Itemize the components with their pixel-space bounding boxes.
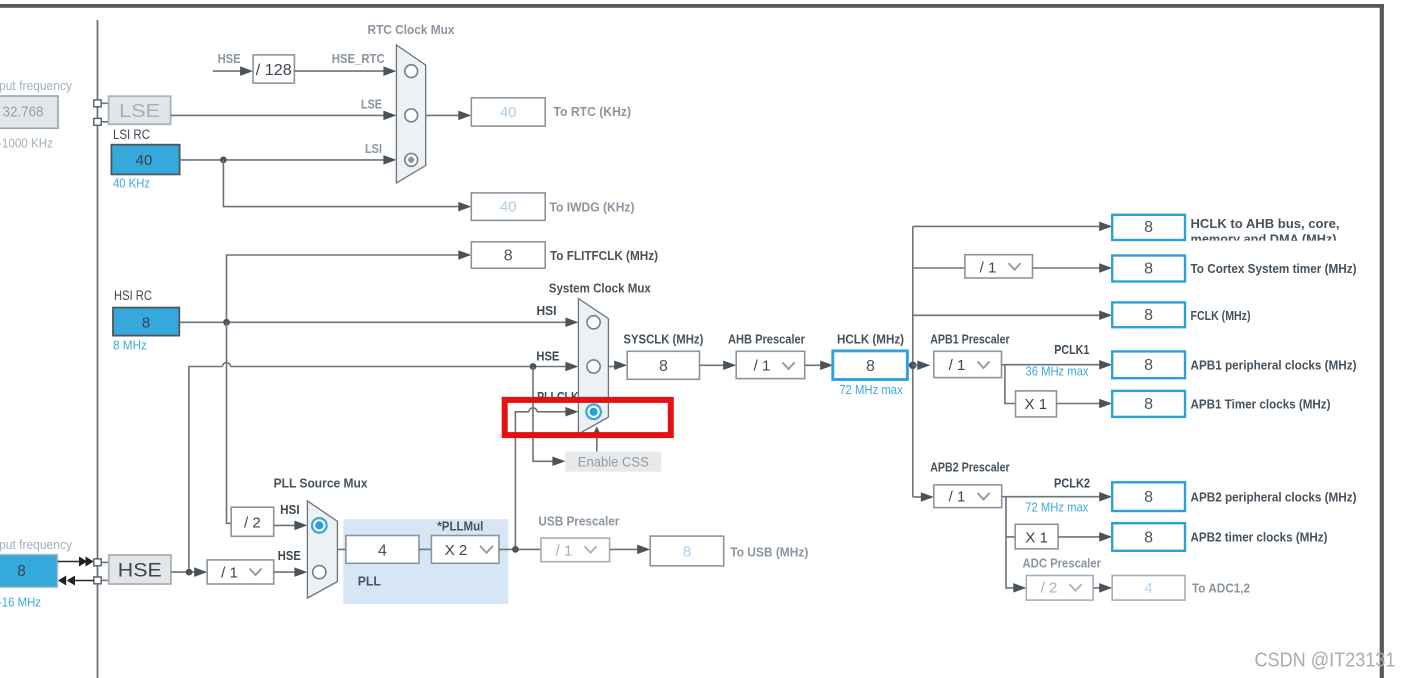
wire pin to HSE box lower <box>101 579 109 581</box>
System Clock Mux body <box>578 299 608 435</box>
wire hop HSE over HSI-div2 line <box>223 363 231 367</box>
junction node CSS tap <box>530 363 537 370</box>
To Cortex output box <box>1112 256 1185 282</box>
arrowhead into APB2 prescaler <box>921 492 934 502</box>
LSE input frequency box 32.768 <box>0 96 58 128</box>
svg-text:X 1: X 1 <box>1025 396 1048 413</box>
Cortex /1 dropdown <box>965 255 1033 278</box>
To ADC output box (disabled) <box>1112 576 1185 601</box>
HCLK box (blue border) <box>833 351 908 380</box>
AHB prescaler dropdown <box>736 351 805 378</box>
APB1 peripheral clocks box <box>1112 351 1185 378</box>
HSE oscillator block <box>109 555 171 584</box>
wire pin to LSE box lower <box>101 121 108 123</box>
svg-text:APB1 Timer clocks (MHz): APB1 Timer clocks (MHz) <box>1191 398 1331 412</box>
wire PLLMul to USB prescaler <box>499 548 541 550</box>
FCLK output box <box>1112 302 1185 327</box>
svg-text:HSE_RTC: HSE_RTC <box>332 52 385 66</box>
svg-text:APB1 Prescaler: APB1 Prescaler <box>930 333 1010 347</box>
PLL block background panel <box>343 519 508 604</box>
pin square HSE lower <box>94 577 101 584</box>
svg-text:X 1: X 1 <box>1025 529 1048 546</box>
junction node HSE out <box>186 569 193 576</box>
junction node PLLCLK <box>512 546 519 553</box>
wire PLL mux to PLLM box <box>337 548 346 550</box>
wire USB prescaler to To USB box <box>610 548 639 550</box>
svg-text:/ 2: / 2 <box>1041 580 1058 597</box>
svg-text:HSE: HSE <box>218 52 241 66</box>
wire HSE riser to system mux <box>189 367 223 573</box>
svg-text:APB2 timer clocks (MHz): APB2 timer clocks (MHz) <box>1191 531 1328 545</box>
arrowhead into PLL mux HSI <box>294 521 307 531</box>
left bus rail (vertical) <box>97 20 99 678</box>
svg-text:CSDN @IT23131: CSDN @IT23131 <box>1255 648 1396 671</box>
svg-text:8: 8 <box>1144 219 1153 236</box>
svg-text:/ 1: / 1 <box>949 489 966 506</box>
PLL Source Mux body <box>307 501 337 598</box>
wire HSE to /1 PreDiv <box>171 571 195 573</box>
arrowhead into FCLK box <box>1099 311 1112 321</box>
arrowhead into HCLK <box>820 361 833 371</box>
wire X1 to APB1 timer output <box>1057 403 1101 405</box>
wire /1 to PLL mux <box>274 571 296 573</box>
svg-text:40: 40 <box>136 152 153 169</box>
wire Enable CSS up-arrow to mux <box>596 436 598 452</box>
double arrowhead left (HSE feedback) <box>58 576 66 586</box>
arrowhead into ADC prescaler <box>1013 583 1026 593</box>
svg-text:AHB Prescaler: AHB Prescaler <box>728 333 805 347</box>
svg-text:HSI: HSI <box>280 502 300 517</box>
PLL input division box 4 <box>346 536 419 564</box>
LSE oscillator block <box>109 96 171 124</box>
LSI RC oscillator block (active blue) <box>111 145 179 175</box>
svg-text:/ 1: / 1 <box>754 357 771 374</box>
APB2 prescaler dropdown <box>934 485 1002 508</box>
svg-text:LSI RC: LSI RC <box>113 127 150 142</box>
wire HSE into system mux <box>231 366 567 368</box>
pin square LSE lower <box>94 118 101 125</box>
wire RTC mux to To RTC box <box>426 114 460 116</box>
wire HSI branch up to FLITFCLK <box>227 255 460 322</box>
arrowhead up into mux bottom <box>592 427 602 437</box>
svg-text:/ 1: / 1 <box>980 260 997 277</box>
arrowhead into Enable CSS <box>552 457 565 467</box>
svg-text:36 MHz max: 36 MHz max <box>1026 365 1090 379</box>
wire APB1 branch down to X1 <box>1005 365 1016 404</box>
wire APB2 branch down to X1 and ADC <box>1006 497 1014 588</box>
svg-text:8: 8 <box>1144 396 1153 413</box>
svg-text:32.768: 32.768 <box>3 105 44 121</box>
wire /128 to RTC mux <box>294 70 384 72</box>
svg-text:HSI RC: HSI RC <box>114 288 152 303</box>
svg-text:LSE: LSE <box>361 98 382 112</box>
svg-text:To FLITFCLK (MHz): To FLITFCLK (MHz) <box>550 249 658 263</box>
arrowhead into To RTC <box>458 111 471 121</box>
radio HSE (unselected) <box>313 566 326 579</box>
svg-text:-1000 KHz: -1000 KHz <box>0 137 53 151</box>
APB2 timer clocks box <box>1112 523 1185 551</box>
svg-text:72 MHz max: 72 MHz max <box>1025 500 1089 514</box>
svg-text:LSI: LSI <box>365 142 382 156</box>
arrowhead into RTC mux LSI <box>383 155 396 165</box>
wire HSE to /128 <box>213 70 241 72</box>
svg-text:APB1 peripheral clocks (MHz): APB1 peripheral clocks (MHz) <box>1191 359 1357 373</box>
svg-text:To USB (MHz): To USB (MHz) <box>730 546 808 560</box>
wire system mux to SYSCLK <box>608 366 615 368</box>
wire stub to X1 APB2 <box>1006 536 1015 538</box>
svg-text:/ 2: / 2 <box>244 515 261 532</box>
svg-text:40 KHz: 40 KHz <box>113 177 150 191</box>
double arrowhead right (HSE out) <box>79 557 87 567</box>
wire PLLCLK riser to system mux <box>515 412 529 550</box>
svg-text:HCLK (MHz): HCLK (MHz) <box>837 333 904 347</box>
svg-text:8: 8 <box>659 358 668 375</box>
svg-text:PLL: PLL <box>358 575 381 589</box>
radio HSE_RTC (unselected) <box>405 65 418 78</box>
divider /128 <box>253 55 294 83</box>
arrowhead into RTC mux HSE_RTC <box>383 66 396 76</box>
svg-text:8 MHz: 8 MHz <box>113 339 147 353</box>
svg-text:/ 1: / 1 <box>556 542 573 559</box>
svg-text:HCLK to AHB bus, core,: HCLK to AHB bus, core, <box>1191 217 1340 231</box>
junction node HSI <box>223 319 230 326</box>
SYSCLK box <box>627 351 699 379</box>
junction node HCLK/bus <box>909 362 917 370</box>
RTC Clock Mux body <box>396 45 425 183</box>
svg-text:APB2 Prescaler: APB2 Prescaler <box>930 461 1010 475</box>
arrowhead into ADC box <box>1099 583 1112 593</box>
wire /2 to PLL mux <box>274 524 296 526</box>
wire Cortex divider to output <box>1033 267 1101 269</box>
To USB output box (disabled) <box>650 536 724 566</box>
svg-text:ADC Prescaler: ADC Prescaler <box>1023 557 1102 571</box>
red annotation rectangle <box>505 400 671 435</box>
wire ADC prescaler to ADC box <box>1093 587 1100 589</box>
HSI RC oscillator block (active blue) <box>113 308 179 336</box>
arrowhead into system mux HSE <box>565 362 578 372</box>
svg-text:/ 128: / 128 <box>256 62 292 79</box>
svg-text:40: 40 <box>500 104 517 121</box>
wire bus branch to Cortex divider <box>913 267 965 269</box>
wire HSI branch down to /2 <box>227 322 232 523</box>
svg-text:/ 1: / 1 <box>949 357 966 374</box>
svg-text:put frequency: put frequency <box>0 538 73 552</box>
arrowhead into APB1 prescaler <box>917 361 930 371</box>
svg-text:8: 8 <box>866 358 875 375</box>
APB1 prescaler dropdown <box>934 351 1002 377</box>
svg-text:8: 8 <box>1144 260 1153 277</box>
To FLITFCLK output box <box>471 242 545 268</box>
HCLK to AHB output box <box>1112 215 1185 240</box>
wire APB2 to PCLK2 output <box>1002 496 1100 498</box>
svg-text:8: 8 <box>1144 357 1153 374</box>
svg-text:HSI: HSI <box>537 303 557 318</box>
svg-text:APB2 peripheral clocks (MHz): APB2 peripheral clocks (MHz) <box>1191 491 1357 505</box>
APB1 Timer clocks box <box>1112 391 1185 417</box>
wire AHB to HCLK <box>805 364 822 366</box>
wire pin to HSE box upper <box>101 561 109 563</box>
svg-text:4: 4 <box>378 542 387 559</box>
arrowhead into /1 PreDiv <box>194 567 207 577</box>
svg-text:8: 8 <box>142 314 150 331</box>
svg-text:8: 8 <box>683 543 691 560</box>
wire LSI to RTC mux <box>180 159 385 161</box>
X1 multiplier box (APB1 timers) <box>1016 391 1057 417</box>
svg-text:72 MHz max: 72 MHz max <box>839 383 903 397</box>
svg-text:HSE: HSE <box>278 548 301 563</box>
wire bus branch to HCLK AHB output <box>913 225 1100 227</box>
pin square LSE upper <box>94 100 101 107</box>
svg-text:X 2: X 2 <box>445 542 468 559</box>
pin square HSE upper <box>94 559 101 566</box>
wire hop PLLCLK over CSS line <box>529 408 537 412</box>
arrowhead into APB1 timer box <box>1099 399 1112 409</box>
radio LSE (unselected) <box>405 109 418 122</box>
svg-text:FCLK (MHz): FCLK (MHz) <box>1191 309 1251 323</box>
arrowhead into AHB prescaler <box>723 361 736 371</box>
wire bus to APB2 prescaler <box>913 496 922 498</box>
svg-text:To ADC1,2: To ADC1,2 <box>1192 582 1250 596</box>
radio LSI (selected) <box>405 154 418 167</box>
svg-text:8: 8 <box>1144 489 1153 506</box>
divider /2 (PLL HSI input) <box>231 507 274 536</box>
svg-text:RTC Clock Mux: RTC Clock Mux <box>368 23 455 37</box>
svg-text:System Clock Mux: System Clock Mux <box>549 281 651 295</box>
svg-text:LSE: LSE <box>119 100 160 121</box>
svg-text:PCLK2: PCLK2 <box>1054 476 1090 491</box>
arrowhead into To USB <box>637 545 650 555</box>
svg-text:HSE: HSE <box>536 348 559 363</box>
arrowhead into APB1 peripheral box <box>1099 360 1112 370</box>
radio HSE (unselected) <box>587 360 600 373</box>
svg-text:*PLLMul: *PLLMul <box>437 520 483 534</box>
arrowhead into system mux HSI <box>565 318 578 328</box>
arrowhead into /128 <box>240 66 253 76</box>
arrowhead into APB2 timer box <box>1099 532 1112 542</box>
arrowhead into Cortex box <box>1099 263 1112 273</box>
arrowhead into To IWDG <box>458 202 471 212</box>
svg-text:put frequency: put frequency <box>0 79 73 93</box>
arrowhead into SYSCLK <box>614 361 627 371</box>
To IWDG output box <box>471 193 545 221</box>
svg-text:-16 MHz: -16 MHz <box>0 595 41 609</box>
arrowhead into APB2 peripheral box <box>1099 492 1112 502</box>
svg-text:memory and DMA (MHz): memory and DMA (MHz) <box>1191 233 1337 247</box>
svg-text:USB Prescaler: USB Prescaler <box>538 515 619 529</box>
arrowhead into HCLK AHB box <box>1099 222 1112 232</box>
arrowhead into To FLITFCLK <box>458 250 471 260</box>
svg-text:40: 40 <box>500 199 517 216</box>
wire bus branch to FCLK <box>913 314 1100 316</box>
wire HSI RC to system mux <box>179 321 566 323</box>
svg-text:Enable CSS: Enable CSS <box>578 455 649 470</box>
radio HSI (unselected) <box>587 316 600 329</box>
APB2 peripheral clocks box <box>1112 482 1185 511</box>
Enable CSS button <box>565 452 661 472</box>
wire APB1 to PCLK1 output <box>1002 364 1101 366</box>
svg-text:To RTC (KHz): To RTC (KHz) <box>554 105 632 119</box>
HCLK bus vertical <box>912 226 914 497</box>
svg-text:8: 8 <box>1144 529 1153 546</box>
X1 multiplier box (APB2 timers) <box>1015 524 1058 549</box>
junction node LSI branch <box>220 157 227 164</box>
panel right border bar <box>1380 4 1384 678</box>
panel top border bar <box>0 4 1384 8</box>
wire CSS drop to Enable CSS <box>533 367 553 462</box>
svg-text:SYSCLK (MHz): SYSCLK (MHz) <box>623 333 703 347</box>
USB prescaler /1 dropdown (disabled) <box>541 538 610 562</box>
svg-text:8: 8 <box>17 563 26 580</box>
HSE input frequency box 8 (active blue) <box>0 555 58 588</box>
svg-text:8: 8 <box>1144 307 1153 324</box>
svg-text:4: 4 <box>1144 580 1152 597</box>
wire HSE box to pins (out) <box>58 561 81 563</box>
wire X1 to APB2 timer output <box>1058 536 1100 538</box>
wire pin to LSE box upper <box>101 102 108 104</box>
svg-text:To Cortex System timer (MHz): To Cortex System timer (MHz) <box>1191 262 1357 276</box>
arrowhead into RTC mux LSE <box>383 111 396 121</box>
wire SYSCLK to AHB prescaler <box>700 364 725 366</box>
To RTC output box <box>471 98 545 126</box>
svg-text:/ 1: / 1 <box>221 565 238 582</box>
svg-text:To IWDG (KHz): To IWDG (KHz) <box>550 201 635 215</box>
wire pins to HSE feedback <box>75 580 94 582</box>
wire LSE to RTC mux <box>171 114 385 116</box>
wire PLLCLK into system mux <box>537 411 566 413</box>
radio PLLCLK (selected blue) <box>586 405 601 420</box>
svg-text:PCLK1: PCLK1 <box>1054 342 1089 357</box>
arrowhead into system mux PLLCLK <box>565 407 578 417</box>
PLLMul X2 dropdown <box>431 536 499 564</box>
wire 4 box to PLLMul <box>419 548 431 550</box>
svg-text:PLL Source Mux: PLL Source Mux <box>274 476 368 490</box>
radio HSI (selected blue) <box>312 518 327 533</box>
ADC prescaler dropdown (disabled) <box>1026 576 1093 601</box>
svg-text:8: 8 <box>504 248 513 265</box>
HSE PreDiv /1 dropdown <box>207 560 274 584</box>
svg-text:HSE: HSE <box>118 560 162 581</box>
wire LSI branch to IWDG <box>223 160 459 207</box>
arrowhead into PLL mux HSE <box>294 567 307 577</box>
wire bus to APB1 prescaler <box>913 364 921 366</box>
wire HCLK to bus <box>908 364 913 366</box>
